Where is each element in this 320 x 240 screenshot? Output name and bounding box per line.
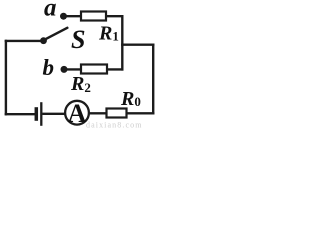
ammeter A circle xyxy=(65,101,89,125)
battery cell: long thin positive plate xyxy=(40,102,42,126)
resistor R1 xyxy=(81,12,106,21)
wire right vertical xyxy=(152,45,154,114)
wire contact b to R2 xyxy=(67,68,81,70)
wire R1 to junction xyxy=(106,15,122,17)
svg-text:a: a xyxy=(44,0,57,21)
wire R0 to right corner xyxy=(127,112,154,114)
wire R2 to junction xyxy=(107,68,122,70)
svg-text:A: A xyxy=(68,99,87,128)
resistor R0 xyxy=(107,109,127,118)
wire node junction vertical joining R1 and R2 xyxy=(121,16,123,69)
wire left vertical xyxy=(5,41,7,114)
wire top-left horizontal to switch pivot xyxy=(6,40,42,42)
svg-text:b: b xyxy=(43,55,55,80)
svg-text:daixian8.com: daixian8.com xyxy=(86,121,143,130)
wire ammeter to R0 xyxy=(89,112,107,114)
battery cell: short thick negative plate xyxy=(35,107,39,121)
switch pivot dot xyxy=(40,37,47,44)
node b contact dot xyxy=(61,66,68,73)
wire contact a to R1 xyxy=(66,15,81,17)
wire mid horizontal junction to right vertical xyxy=(122,44,153,46)
wire bottom-left horizontal to battery xyxy=(6,113,35,115)
resistor R2 xyxy=(81,65,107,74)
switch S blade xyxy=(45,28,68,40)
wire battery to ammeter xyxy=(44,113,66,115)
node a contact dot xyxy=(60,13,67,20)
svg-text:S: S xyxy=(71,25,85,54)
